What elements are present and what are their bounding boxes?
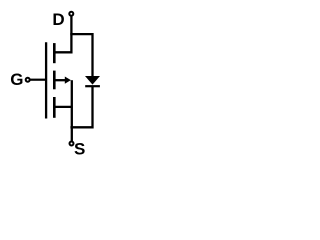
svg-text:S: S bbox=[74, 140, 85, 159]
transistor Q1 bottom arm bbox=[54, 106, 73, 108]
wire drain vertical and top arm bbox=[54, 17, 72, 53]
terminal D bbox=[69, 12, 73, 16]
transistor Q1 channel bottom segment bbox=[53, 97, 56, 118]
transistor Q1 gate bar bbox=[45, 42, 47, 118]
transistor Q1 body arrow bbox=[65, 77, 71, 84]
diode D1 cathode bar bbox=[85, 85, 100, 87]
transistor Q1 channel middle segment bbox=[53, 71, 56, 90]
wire gate bbox=[31, 79, 46, 81]
wire source vertical bbox=[71, 80, 73, 141]
transistor Q1 channel top segment bbox=[53, 43, 56, 63]
wire drain to diode branch bbox=[70, 33, 92, 35]
terminal S bbox=[70, 142, 74, 146]
svg-text:G: G bbox=[10, 70, 23, 89]
svg-text:D: D bbox=[52, 10, 64, 29]
wire diode branch upper vertical bbox=[91, 33, 93, 77]
transistor Q1 middle body arm bbox=[55, 79, 66, 81]
terminal G bbox=[26, 78, 30, 82]
wire diode branch lower vertical and bottom connector bbox=[70, 86, 92, 127]
diode D1 anode triangle bbox=[85, 76, 100, 85]
